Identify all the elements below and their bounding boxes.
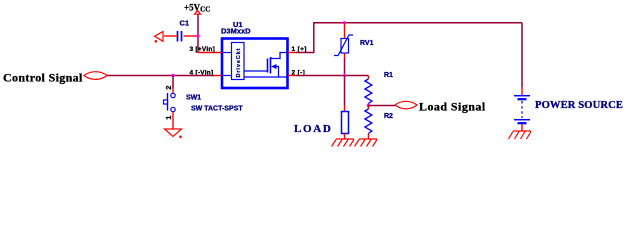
wire top rail down to battery: [521, 23, 523, 87]
transistor MOSFET inside U1: [244, 53, 287, 78]
svg-text:R2: R2: [384, 113, 393, 120]
port Load Signal: [395, 100, 486, 114]
svg-text:Load Signal: Load Signal: [419, 100, 486, 114]
wire +5Vcc vertical: [197, 15, 199, 53]
svg-text:RV1: RV1: [360, 40, 374, 47]
svg-text:1: 1: [164, 116, 173, 120]
wire down to LOAD: [344, 76, 346, 106]
wire to load signal port: [368, 105, 395, 107]
resistor R1: [365, 72, 393, 106]
battery POWER SOURCE: [514, 96, 623, 124]
svg-text:R1: R1: [384, 72, 393, 79]
wire stubs inside U1: [224, 52, 232, 54]
ground earth (battery): [509, 131, 532, 139]
svg-text:POWER SOURCE: POWER SOURCE: [535, 100, 623, 111]
pin 3 [+Vin]: [190, 46, 222, 53]
switch SW1: [164, 86, 244, 120]
svg-text:SW1: SW1: [186, 95, 201, 102]
ground arrow (switch): [165, 129, 182, 138]
node RV1 top junction: [343, 21, 346, 24]
svg-text:2: 2: [164, 86, 173, 90]
svg-text:SW TACT-SPST: SW TACT-SPST: [191, 106, 243, 113]
wire switch drop: [172, 76, 174, 89]
svg-text:Control Signal: Control Signal: [3, 71, 83, 85]
op-amp n/a : IC U1 outer box: [221, 20, 288, 88]
pin 2 [-]: [288, 70, 305, 77]
wire pin1 to top rail: [296, 23, 522, 53]
driver block inside U1: [232, 43, 245, 80]
varistor RV1: [334, 24, 374, 59]
wire pin2 row: [296, 75, 368, 77]
ground earth (R2): [355, 139, 378, 147]
wire RV1 to pin2 row: [344, 58, 346, 76]
pin 4 [-Vin]: [190, 70, 222, 77]
svg-text:LOAD: LOAD: [294, 123, 333, 135]
ground earth (LOAD): [332, 139, 355, 147]
node load junction: [343, 74, 346, 77]
LOAD box: [294, 112, 349, 136]
wire switch to ground: [172, 112, 174, 129]
node load signal junction: [367, 104, 370, 107]
ground arrow left (cap): [155, 32, 164, 43]
svg-text:DriveCkt: DriveCkt: [236, 48, 242, 78]
wire control row: [107, 75, 214, 77]
svg-text:3 [+Vin]: 3 [+Vin]: [190, 46, 216, 53]
pin 1 [+]: [288, 46, 307, 53]
node switch junction: [171, 74, 174, 77]
power port +5Vcc: [184, 2, 210, 14]
wire LOAD to ground: [344, 134, 346, 140]
svg-text:D3MxxD: D3MxxD: [221, 27, 251, 36]
port Control Signal: [3, 71, 107, 85]
node cap junction: [196, 34, 199, 37]
wire battery to ground: [521, 124, 523, 131]
resistor R2: [365, 106, 393, 140]
capacitor C1: [164, 19, 197, 42]
svg-text:C1: C1: [180, 19, 190, 28]
